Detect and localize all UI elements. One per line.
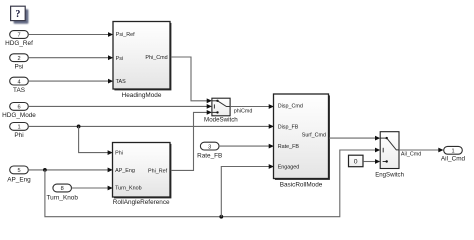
svg-text:Psi: Psi — [116, 56, 124, 62]
wire Turn_Knob to RollAngleReference — [72, 186, 113, 191]
svg-text:HeadingMode: HeadingMode — [122, 92, 162, 99]
svg-text:Phi_Ref: Phi_Ref — [148, 168, 168, 174]
svg-text:0: 0 — [354, 159, 358, 166]
inport 8 Turn_Knob — [47, 184, 79, 202]
wire Rate_FB to BasicRollMode — [219, 144, 274, 149]
svg-text:TAS: TAS — [116, 79, 126, 85]
junction Phi branch — [77, 125, 81, 129]
svg-text:5: 5 — [17, 168, 20, 174]
svg-text:Psi: Psi — [15, 63, 24, 70]
svg-text:Disp_Cmd: Disp_Cmd — [278, 103, 303, 109]
svg-text:TAS: TAS — [13, 87, 25, 94]
svg-text:Turn_Knob: Turn_Knob — [115, 185, 141, 191]
subsystem HeadingMode — [113, 22, 170, 99]
subsystem HeadingMode shadow — [114, 23, 171, 91]
wire up to BasicRollMode Engaged — [221, 164, 274, 217]
svg-text:2: 2 — [17, 56, 20, 62]
outport 1 Ail_Cmd — [441, 146, 466, 162]
switch EngSwitch — [375, 132, 404, 179]
svg-text:phiCmd: phiCmd — [234, 108, 253, 114]
svg-text:Turn_Knob: Turn_Knob — [47, 195, 79, 202]
svg-text:HDG_Mode: HDG_Mode — [2, 112, 36, 119]
svg-text:Surf_Cmd: Surf_Cmd — [302, 132, 326, 138]
wire phiCmd to BasicRollMode Disp_Cmd — [230, 104, 274, 114]
svg-text:AP_Eng: AP_Eng — [115, 168, 135, 174]
svg-text:Disp_FB: Disp_FB — [278, 124, 299, 130]
wire Phi to BasicRollMode Disp_FB — [28, 124, 274, 129]
wire HDG_Mode to ModeSwitch control — [28, 104, 212, 109]
svg-text:ModeSwitch: ModeSwitch — [204, 117, 238, 124]
subsystem BasicRollMode shadow — [275, 95, 330, 179]
wire Phi branch to RollAngleReference — [79, 126, 113, 155]
svg-text:Rate_FB: Rate_FB — [278, 144, 300, 150]
constant 0 — [349, 155, 364, 167]
junction AP_Eng branch — [43, 168, 47, 172]
inport 2 Psi — [10, 54, 29, 71]
svg-text:Phi: Phi — [14, 132, 23, 139]
subsystem BasicRollMode — [274, 94, 329, 189]
svg-text:4: 4 — [17, 79, 20, 85]
svg-text:BasicRollMode: BasicRollMode — [280, 182, 323, 189]
svg-text:1: 1 — [17, 125, 20, 131]
svg-text:3: 3 — [208, 144, 211, 150]
wire AP_Eng to RollAngleReference — [28, 168, 113, 173]
wire AP_Eng down and along bottom to EngSwitch control — [45, 148, 380, 217]
svg-text:8: 8 — [61, 186, 64, 192]
switch ModeSwitch — [204, 98, 238, 124]
subsystem RollAngleReference — [113, 143, 171, 207]
svg-text:Ail_Cmd: Ail_Cmd — [401, 152, 421, 158]
help block ? — [11, 6, 26, 20]
wire Psi to HeadingMode — [28, 55, 113, 60]
subsystem RollAngleReference shadow — [114, 144, 171, 199]
inport 6 HDG_Mode — [2, 103, 36, 120]
inport 1 Phi — [10, 123, 29, 140]
inport 7 HDG_Ref — [5, 31, 33, 48]
inport 3 Rate_FB — [197, 142, 222, 159]
wire Phi_Cmd to ModeSwitch input 1 — [171, 57, 212, 103]
svg-text:EngSwitch: EngSwitch — [375, 171, 404, 178]
help block ? shadow — [14, 9, 29, 24]
svg-text:Rate_FB: Rate_FB — [197, 152, 222, 159]
wire Ail_Cmd to outport — [399, 148, 444, 158]
svg-text:?: ? — [15, 9, 20, 20]
wire constant to EngSwitch input 3 — [363, 159, 380, 164]
svg-text:6: 6 — [17, 105, 20, 111]
inport 5 AP_Eng — [7, 166, 31, 184]
wire Phi_Ref to ModeSwitch input 3 — [171, 110, 212, 170]
svg-text:Psi_Ref: Psi_Ref — [116, 32, 135, 38]
junction bottom wire to Engaged — [219, 215, 223, 219]
svg-text:Ail_Cmd: Ail_Cmd — [441, 156, 466, 163]
svg-text:AP_Eng: AP_Eng — [7, 177, 31, 184]
wire HDG_Ref to HeadingMode — [28, 32, 113, 37]
wire Surf_Cmd to EngSwitch input 1 — [329, 136, 380, 141]
svg-text:RollAngleReference: RollAngleReference — [113, 199, 170, 206]
svg-text:1: 1 — [451, 149, 454, 155]
svg-text:Phi: Phi — [115, 151, 123, 157]
svg-text:7: 7 — [17, 33, 20, 39]
svg-text:Engaged: Engaged — [278, 165, 300, 171]
svg-text:Phi_Cmd: Phi_Cmd — [145, 55, 167, 61]
wire TAS to HeadingMode — [28, 79, 113, 84]
svg-text:HDG_Ref: HDG_Ref — [5, 40, 33, 47]
inport 4 TAS — [10, 77, 29, 94]
